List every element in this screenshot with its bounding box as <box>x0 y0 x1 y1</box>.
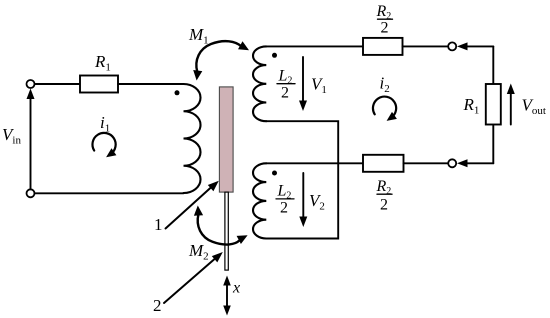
polarity dot secondary top <box>272 53 277 58</box>
pointer to rod 2 <box>164 252 223 303</box>
svg-text:R1: R1 <box>463 95 480 117</box>
wire R2/2 top to terminal <box>403 45 449 47</box>
core 1 (movable iron core) <box>219 87 233 192</box>
label R2/2 bottom <box>376 178 393 214</box>
svg-text:M2: M2 <box>188 241 209 263</box>
wire R2/2 bottom to terminal <box>404 162 449 164</box>
svg-text:1: 1 <box>154 215 163 234</box>
mesh current i1 <box>92 133 116 157</box>
wire with arrowhead into bottom terminal <box>457 159 493 167</box>
wire bottom-left <box>35 192 184 194</box>
svg-text:Vin: Vin <box>2 125 21 147</box>
wire R1 to primary coil <box>118 83 184 85</box>
voltage arrow Vout <box>507 84 515 125</box>
wire top-left <box>35 83 81 85</box>
wire secondary bottom to R2/2 <box>266 162 363 164</box>
label L2/2 bottom <box>276 183 294 217</box>
mesh current i2 <box>373 97 397 121</box>
resistor R1 primary <box>80 76 118 93</box>
label R2/2 top <box>376 3 393 37</box>
terminal output top <box>448 42 456 50</box>
svg-text:x: x <box>232 280 240 297</box>
svg-text:2: 2 <box>153 296 162 315</box>
svg-text:i2: i2 <box>380 74 390 96</box>
polarity dot secondary bottom <box>272 171 277 176</box>
label L2/2 top <box>277 68 295 102</box>
coupling arrow M1 <box>193 41 249 80</box>
right branch wire <box>492 46 494 163</box>
voltage arrow V2 <box>299 173 307 227</box>
inductor L2/2 top secondary <box>253 46 266 121</box>
svg-text:Vout: Vout <box>522 96 546 118</box>
svg-text:2: 2 <box>380 197 388 214</box>
svg-text:M1: M1 <box>188 25 209 47</box>
svg-text:V1: V1 <box>311 75 327 97</box>
voltage arrow V1 <box>299 57 307 111</box>
svg-text:V2: V2 <box>309 191 325 213</box>
polarity dot primary <box>175 90 180 95</box>
inductor L2/2 bottom secondary <box>253 163 266 238</box>
center-tap wire <box>266 121 338 238</box>
wire with arrowhead into top terminal <box>457 42 493 50</box>
svg-text:2: 2 <box>381 19 389 36</box>
resistor R2/2 bottom <box>363 155 404 172</box>
Vin polarity arrow <box>27 89 35 190</box>
svg-text:2: 2 <box>281 85 289 102</box>
coupling arrow M2 <box>194 206 248 245</box>
terminal input top <box>27 80 35 88</box>
inductor L1 primary winding <box>184 84 201 193</box>
resistor R1 load <box>486 84 501 125</box>
terminal output bottom <box>448 159 456 167</box>
wire secondary top to R2/2 <box>266 45 363 47</box>
rod 2 (push rod) <box>225 192 228 270</box>
svg-text:R1: R1 <box>94 52 111 74</box>
resistor R2/2 top <box>363 38 403 55</box>
pointer to core 1 <box>166 181 219 229</box>
svg-text:2: 2 <box>280 200 288 217</box>
terminal input bottom <box>27 189 35 197</box>
svg-text:i1: i1 <box>100 113 110 135</box>
displacement arrow x <box>223 276 231 316</box>
